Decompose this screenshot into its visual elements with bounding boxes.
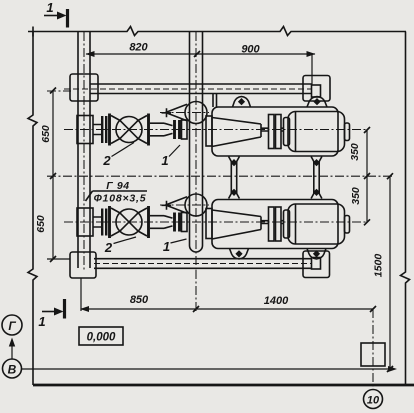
svg-text:1: 1: [38, 314, 45, 329]
shaft 2: [261, 221, 284, 224]
eccentric cone 1: [166, 104, 188, 120]
pump suction flange 1: [206, 116, 212, 146]
dim 650/650 left: [52, 91, 54, 260]
dim 350/350 right: [366, 130, 368, 222]
AXIS CIRCLES: [2, 315, 397, 409]
suction flange pair 1: [175, 120, 180, 139]
svg-text:Ф108×3,5: Ф108×3,5: [94, 193, 147, 205]
pipe support pad bottom-right: [303, 251, 330, 278]
svg-text:1500: 1500: [373, 254, 385, 278]
support column left between frames: [229, 157, 240, 199]
svg-text:1: 1: [163, 239, 170, 254]
reducer taper 1: [164, 123, 173, 136]
foot bolt bottom-right 2: [307, 249, 326, 260]
svg-text:820: 820: [129, 42, 148, 54]
support column right between frames: [311, 157, 322, 199]
SECTION MARKS: [38, 0, 67, 329]
middle axis line: [47, 175, 393, 177]
pump volute cone 2: [212, 210, 261, 239]
foot bolt top-left 1: [233, 97, 251, 108]
pump volute cone 1: [212, 118, 261, 147]
PIPING: [64, 32, 330, 278]
motor M1: [288, 112, 345, 152]
pipe support pad top-left: [70, 74, 98, 101]
PUMP UNITS: [64, 97, 367, 260]
svg-text:Г 94: Г 94: [106, 180, 129, 192]
pump row 1 axis: [64, 129, 367, 131]
top border wall line with two break symbols: [28, 27, 406, 36]
foot bolt bottom-left 2: [230, 249, 249, 260]
pipe end cap bottom: [312, 258, 321, 270]
svg-text:650: 650: [35, 215, 47, 233]
motor front bell 2: [284, 210, 290, 238]
foot bolt top-right 1: [307, 97, 327, 108]
pump suction flange 2: [206, 209, 212, 239]
tee branch stub 2: [93, 217, 101, 227]
svg-text:650: 650: [40, 125, 52, 143]
svg-text:2: 2: [104, 240, 113, 255]
dim 1500 right: [389, 176, 391, 369]
pipe label line: [93, 190, 148, 192]
gate valve 2 (row 2): [110, 206, 149, 238]
svg-text:350: 350: [350, 187, 362, 205]
elbow bend circle 1: [185, 102, 207, 124]
svg-text:900: 900: [241, 44, 260, 56]
motor front bell 1: [284, 118, 290, 146]
valve outlet pipe 2: [150, 216, 164, 229]
cone tip cross 1: [162, 108, 172, 117]
axis circle В: [3, 359, 22, 378]
svg-text:Г: Г: [8, 319, 16, 333]
valve outlet pipe 1: [150, 123, 164, 136]
eccentric cone 2: [166, 197, 188, 213]
svg-text:2: 2: [102, 153, 111, 168]
elbow bend circle 2: [185, 194, 207, 216]
dim 850/1400 bottom: [81, 308, 374, 310]
suction nozzle 1: [182, 120, 188, 139]
foundation pad on axis В: [361, 343, 385, 366]
pipe support pad bottom-left: [70, 252, 96, 278]
svg-text:350: 350: [349, 143, 361, 161]
left wall line with break symbols: [28, 32, 37, 386]
flange pair 1: [102, 116, 106, 143]
axis В line: [22, 368, 391, 370]
svg-text:850: 850: [130, 294, 149, 306]
pump row 2 axis: [64, 221, 367, 223]
riser tee 1: [77, 116, 93, 144]
extension lines bottom: [80, 279, 82, 312]
pump frame 1: [212, 107, 338, 156]
suction nozzle 2: [182, 213, 188, 232]
connector arrow Г-В: [11, 342, 13, 359]
elbow axis 1: [160, 112, 209, 114]
svg-text:1400: 1400: [264, 295, 289, 307]
svg-text:1: 1: [46, 0, 53, 15]
motor M2: [288, 204, 345, 244]
motor terminal boss 2: [345, 216, 350, 234]
bottom thick foundation line: [33, 384, 414, 387]
pump frame 2: [212, 200, 338, 249]
main vertical suction pipe: [189, 32, 191, 246]
tee branch stub 1: [93, 125, 101, 135]
axis circle Г: [2, 315, 22, 335]
motor terminal boss 1: [345, 123, 350, 141]
svg-text:В: В: [8, 363, 17, 377]
pump 1 discharge stub: [212, 94, 214, 107]
coupling 1: [269, 115, 275, 149]
svg-text:0,000: 0,000: [87, 332, 116, 344]
axis circle 10: [364, 390, 383, 409]
extension line for 900 right end: [311, 54, 313, 85]
dim 820/900 top: [86, 53, 315, 55]
svg-text:10: 10: [367, 395, 380, 407]
right wall line with break symbol: [401, 32, 410, 386]
LABELS: [102, 143, 186, 256]
svg-text:1: 1: [161, 153, 168, 168]
pipe end cap top: [312, 85, 321, 97]
bottom header pipe: [94, 258, 312, 260]
cone tip cross 2: [162, 201, 172, 210]
top header pipe: [90, 83, 312, 85]
riser tee 2: [77, 208, 93, 236]
elevation mark 0,000: [79, 327, 123, 345]
gate valve 2 (row 1): [110, 114, 149, 146]
shaft 1: [261, 128, 284, 131]
flange pair 2: [102, 209, 106, 236]
suction flange pair 2: [175, 213, 180, 232]
coupling 2: [269, 207, 275, 241]
DIMENSIONS: [35, 42, 393, 390]
left riser pipe: [77, 32, 79, 268]
corner tick top-left: [32, 27, 34, 37]
pipe support pad top-right: [303, 76, 330, 102]
elbow axis 2: [160, 204, 209, 206]
reducer taper 2: [164, 216, 173, 229]
